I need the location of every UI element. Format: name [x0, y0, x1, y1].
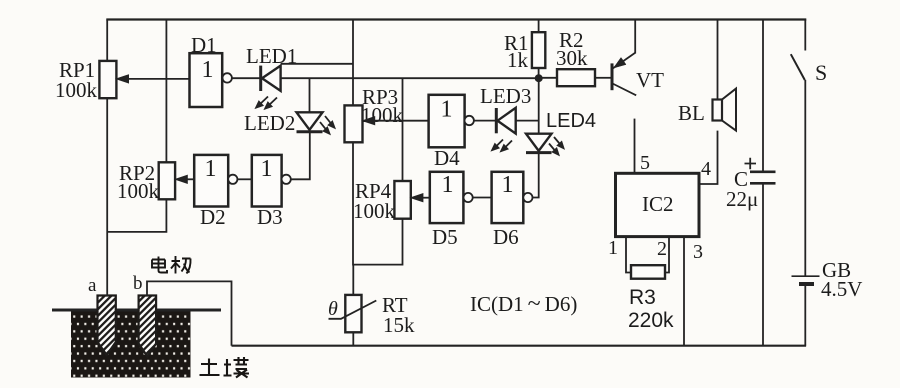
wire RP1 wiper from D1 input: [117, 75, 190, 83]
switch S: [791, 54, 805, 80]
svg-text:R3: R3: [629, 286, 656, 309]
svg-text:LED3: LED3: [480, 84, 531, 108]
svg-text:b: b: [133, 273, 143, 294]
battery GB: [792, 276, 820, 284]
wire switch upper from top rail: [804, 20, 806, 51]
svg-text:100k: 100k: [117, 179, 160, 203]
resistor R3: [631, 265, 665, 279]
potentiometer RP1: [99, 61, 116, 98]
wire RT to bottom rail: [352, 332, 354, 345]
svg-text:22μ: 22μ: [726, 187, 758, 211]
wire capacitor branch from top rail: [762, 20, 764, 171]
svg-text:2: 2: [657, 238, 667, 260]
soil surface line: [52, 309, 221, 312]
wire junction to R2: [539, 77, 557, 79]
wire IC2 pin1 to R3: [626, 237, 631, 273]
wire RP2 wiper from D2 input: [175, 175, 194, 183]
resistor R2: [557, 69, 595, 86]
wire VT emitter to top rail: [634, 20, 636, 54]
wire LED2 cathode to D3 output: [291, 132, 310, 180]
wire RP3 riser from top rail: [352, 20, 354, 106]
svg-text:IC2: IC2: [642, 192, 674, 216]
thermistor RT: [329, 295, 377, 332]
wire D6 output to LED4 cathode: [533, 154, 539, 198]
wire left rail lower: [106, 98, 108, 297]
inverter D5: [430, 172, 473, 223]
wire RP2 branch from top rail: [165, 20, 167, 163]
wire IC2 pin3 to bottom rail: [683, 237, 685, 346]
svg-text:1: 1: [261, 156, 273, 182]
svg-text:D4: D4: [434, 146, 460, 170]
resistor R1: [532, 20, 545, 79]
svg-text:θ: θ: [328, 298, 338, 320]
wire speaker branch from top rail: [717, 20, 719, 121]
svg-text:220k: 220k: [628, 309, 674, 332]
svg-text:D2: D2: [200, 205, 226, 229]
inverter D1: [190, 53, 232, 107]
LED LED4: [526, 134, 565, 156]
svg-text:BL: BL: [678, 101, 705, 125]
capacitor C: [745, 158, 776, 184]
wire D2 output to D3 input: [237, 178, 251, 180]
svg-text:1: 1: [202, 57, 214, 83]
svg-text:100k: 100k: [353, 199, 396, 223]
wire IC2 pin2 to R3: [665, 237, 669, 273]
svg-text:1: 1: [502, 172, 514, 198]
svg-text:4.5V: 4.5V: [821, 277, 862, 301]
wire LED3 anode to LED4 column: [516, 120, 539, 122]
wire RP3 wiper from D4 input: [363, 117, 429, 125]
LED LED3: [491, 108, 516, 152]
svg-text:D6: D6: [493, 225, 519, 249]
svg-text:1: 1: [205, 156, 217, 182]
svg-text:VT: VT: [636, 68, 664, 92]
wire electrode b to bottom rail: [147, 281, 232, 345]
LED LED1: [255, 66, 281, 110]
wire D1 output to LED1: [232, 77, 260, 79]
svg-text:LED2: LED2: [244, 111, 295, 135]
wire RP2 bottom to left rail: [107, 199, 166, 232]
electrode a: [98, 296, 116, 356]
transistor VT: [612, 53, 636, 96]
wire LED1 top link to RP3 riser: [281, 63, 353, 65]
svg-text:1k: 1k: [507, 48, 529, 72]
inverter D3: [252, 155, 291, 207]
wire LED1 anode to R1 junction: [281, 77, 539, 79]
svg-text:D5: D5: [432, 225, 458, 249]
svg-text:100k: 100k: [361, 103, 404, 127]
electrode b: [139, 296, 157, 357]
label electrode 电极: [152, 256, 191, 274]
svg-text:LED4: LED4: [546, 110, 596, 132]
speaker BL: [713, 89, 737, 131]
potentiometer RP3: [345, 105, 363, 142]
LED LED2: [297, 112, 336, 135]
wire RP4 riser: [402, 78, 404, 181]
wire D4 output to LED3: [474, 120, 495, 122]
inverter D2: [194, 155, 237, 207]
wire battery to bottom rail: [804, 286, 806, 346]
potentiometer RP2: [159, 162, 175, 199]
svg-text:D1: D1: [191, 33, 217, 57]
svg-text:4: 4: [701, 158, 711, 180]
inverter D4: [429, 95, 474, 148]
wire bottom rail: [232, 345, 807, 347]
svg-text:100k: 100k: [55, 78, 98, 102]
wire LED2 anode drop: [309, 78, 311, 112]
node junction R1 R2 LED4: [535, 74, 543, 82]
svg-text:3: 3: [693, 241, 703, 263]
svg-text:1: 1: [608, 237, 618, 259]
wire left rail upper: [106, 20, 108, 62]
soil block: [71, 310, 191, 378]
wire D5 output to D6 input: [473, 197, 492, 199]
wire IC2 pin4 to speaker branch: [699, 131, 718, 184]
label soil 土壤: [200, 357, 250, 378]
svg-text:30k: 30k: [556, 46, 588, 70]
wire R2 to VT base: [595, 77, 611, 79]
svg-text:D3: D3: [257, 205, 283, 229]
wire switch to battery: [804, 80, 806, 276]
svg-text:S: S: [815, 60, 827, 85]
wire RP3 bottom and RP4 bottom to RT: [353, 142, 403, 295]
potentiometer RP4: [394, 181, 410, 219]
svg-text:1: 1: [442, 172, 454, 198]
wire LED4 column from junction: [538, 78, 540, 134]
wire IC2 pin5: [634, 119, 636, 174]
IC IC2: [616, 173, 700, 236]
svg-text:1: 1: [441, 97, 453, 123]
wire RP4 wiper from D5 input: [411, 194, 430, 202]
wire top power rail: [106, 18, 806, 20]
svg-text:5: 5: [640, 152, 650, 174]
svg-text:a: a: [88, 275, 97, 296]
inverter D6: [492, 172, 533, 223]
svg-text:IC(D1~D6): IC(D1~D6): [470, 291, 577, 317]
svg-text:15k: 15k: [383, 313, 415, 337]
wire capacitor to bottom rail: [762, 185, 764, 346]
